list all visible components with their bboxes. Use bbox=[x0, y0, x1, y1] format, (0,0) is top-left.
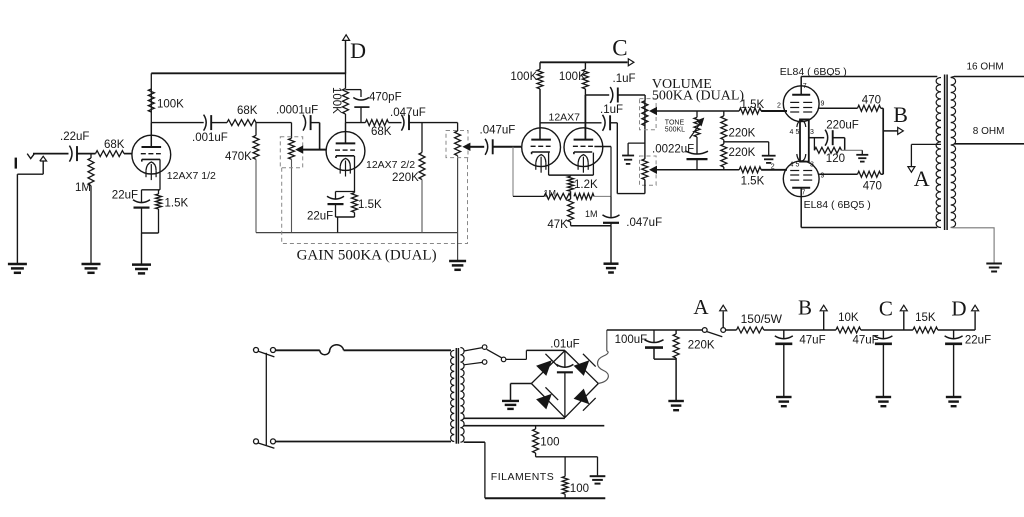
svg-text:.001uF: .001uF bbox=[192, 132, 228, 144]
svg-text:100uF: 100uF bbox=[615, 334, 648, 346]
svg-text:5: 5 bbox=[796, 129, 800, 136]
svg-text:470pF: 470pF bbox=[369, 92, 402, 104]
svg-text:100: 100 bbox=[540, 437, 559, 449]
svg-text:1.5K: 1.5K bbox=[358, 199, 382, 211]
svg-text:8 OHM: 8 OHM bbox=[973, 126, 1005, 137]
svg-text:100K: 100K bbox=[510, 71, 537, 83]
svg-text:3: 3 bbox=[810, 129, 814, 136]
svg-text:68K: 68K bbox=[237, 105, 258, 117]
svg-text:5: 5 bbox=[796, 162, 800, 169]
svg-text:GAIN 500KA (DUAL): GAIN 500KA (DUAL) bbox=[297, 248, 437, 264]
svg-text:100: 100 bbox=[570, 483, 589, 495]
svg-text:22uF: 22uF bbox=[965, 335, 991, 347]
svg-text:47uF: 47uF bbox=[799, 335, 825, 347]
svg-text:12AX7 1/2: 12AX7 1/2 bbox=[167, 170, 216, 182]
svg-text:.0022uF: .0022uF bbox=[652, 143, 694, 155]
svg-text:220uF: 220uF bbox=[826, 120, 859, 132]
svg-text:FILAMENTS: FILAMENTS bbox=[491, 471, 554, 483]
svg-text:12AX7 2/2: 12AX7 2/2 bbox=[366, 159, 415, 171]
svg-text:100K: 100K bbox=[330, 87, 342, 114]
svg-text:12AX7: 12AX7 bbox=[549, 112, 581, 124]
svg-text:1M: 1M bbox=[75, 182, 91, 194]
svg-text:.1uF: .1uF bbox=[613, 73, 636, 85]
svg-text:47K: 47K bbox=[547, 219, 568, 231]
svg-text:220K: 220K bbox=[688, 340, 715, 352]
svg-text:220K: 220K bbox=[729, 128, 756, 140]
svg-text:500KA (DUAL): 500KA (DUAL) bbox=[652, 89, 744, 104]
svg-text:A: A bbox=[914, 166, 930, 191]
svg-text:.01uF: .01uF bbox=[550, 338, 579, 350]
svg-text:68K: 68K bbox=[371, 126, 392, 138]
svg-text:4: 4 bbox=[790, 162, 794, 169]
svg-text:1M: 1M bbox=[585, 209, 598, 219]
svg-text:1.5K: 1.5K bbox=[741, 99, 765, 111]
svg-text:TONE: TONE bbox=[665, 119, 685, 126]
svg-text:1.5K: 1.5K bbox=[741, 176, 765, 188]
svg-text:.0001uF: .0001uF bbox=[276, 105, 318, 117]
svg-text:15K: 15K bbox=[915, 312, 936, 324]
svg-text:.22uF: .22uF bbox=[60, 131, 89, 143]
svg-text:470: 470 bbox=[862, 95, 881, 107]
svg-text:2: 2 bbox=[777, 103, 781, 110]
svg-text:EL84 ( 6BQ5 ): EL84 ( 6BQ5 ) bbox=[804, 199, 871, 211]
svg-text:2: 2 bbox=[771, 164, 775, 171]
svg-text:10K: 10K bbox=[838, 312, 859, 324]
svg-text:.047uF: .047uF bbox=[480, 125, 516, 137]
svg-text:7: 7 bbox=[802, 190, 806, 197]
svg-text:470: 470 bbox=[863, 181, 882, 193]
svg-text:3: 3 bbox=[810, 162, 814, 169]
svg-text:B: B bbox=[893, 102, 908, 127]
svg-text:.047uF: .047uF bbox=[626, 217, 662, 229]
svg-text:B: B bbox=[798, 296, 812, 320]
svg-text:470K: 470K bbox=[225, 151, 252, 163]
svg-text:D: D bbox=[951, 296, 966, 320]
svg-text:220K: 220K bbox=[392, 172, 419, 184]
svg-text:4: 4 bbox=[790, 129, 794, 136]
svg-text:500KL: 500KL bbox=[665, 126, 685, 133]
svg-text:D: D bbox=[350, 38, 366, 63]
svg-text:.047uF: .047uF bbox=[390, 107, 426, 119]
svg-text:C: C bbox=[612, 36, 627, 61]
svg-text:7: 7 bbox=[803, 83, 807, 90]
svg-text:.1uF: .1uF bbox=[600, 104, 623, 116]
svg-text:150/5W: 150/5W bbox=[741, 312, 783, 326]
svg-text:100K: 100K bbox=[157, 99, 184, 111]
svg-text:1.5K: 1.5K bbox=[165, 198, 189, 210]
svg-text:220K: 220K bbox=[729, 147, 756, 159]
svg-text:100K: 100K bbox=[559, 71, 586, 83]
svg-text:22uF: 22uF bbox=[307, 211, 333, 223]
svg-text:16 OHM: 16 OHM bbox=[967, 62, 1004, 73]
svg-text:C: C bbox=[879, 296, 893, 320]
svg-text:1M: 1M bbox=[544, 188, 557, 198]
svg-text:9: 9 bbox=[821, 100, 825, 107]
svg-text:22uF: 22uF bbox=[112, 190, 138, 202]
svg-text:120: 120 bbox=[826, 153, 845, 165]
svg-text:1.2K: 1.2K bbox=[574, 179, 598, 191]
svg-text:68K: 68K bbox=[104, 139, 125, 151]
svg-text:A: A bbox=[693, 295, 709, 319]
svg-text:47uF: 47uF bbox=[853, 335, 879, 347]
